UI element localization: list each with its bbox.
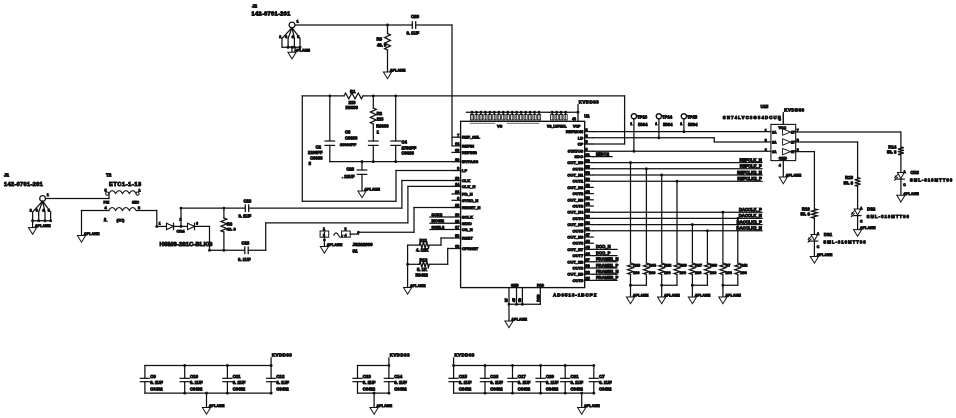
svg-text:REFINB: REFINB	[462, 150, 477, 155]
svg-text:C0402: C0402	[233, 387, 246, 392]
svg-text:39000PF: 39000PF	[340, 142, 357, 147]
svg-text:LD: LD	[578, 135, 583, 140]
svg-text:C29: C29	[411, 14, 420, 19]
svg-text:200: 200	[726, 271, 732, 275]
svg-text:APLANE: APLANE	[294, 49, 310, 53]
svg-text:0. 1UF: 0. 1UF	[518, 380, 531, 385]
svg-text:1: 1	[297, 20, 299, 24]
svg-text:APLANE: APLANE	[84, 232, 100, 236]
svg-text:200: 200	[633, 271, 639, 275]
svg-text:C0603: C0603	[402, 150, 415, 155]
svg-text:R32: R32	[664, 264, 671, 268]
svg-text:5: 5	[105, 189, 107, 193]
svg-text:CR3: CR3	[910, 170, 919, 175]
svg-text:5004: 5004	[663, 122, 673, 127]
svg-text:OUT_N9: OUT_N9	[567, 272, 584, 277]
svg-text:0. 1UF: 0. 1UF	[239, 213, 252, 218]
svg-text:HSMS-281C-BLKG: HSMS-281C-BLKG	[160, 242, 213, 248]
svg-text:C21: C21	[571, 374, 580, 379]
svg-text:R7: R7	[726, 264, 731, 268]
svg-text:113: 113	[377, 117, 384, 122]
svg-text:TP14: TP14	[662, 114, 673, 119]
svg-text:0. 1UF: 0. 1UF	[190, 380, 203, 385]
svg-text:0. 1UF: 0. 1UF	[150, 380, 163, 385]
svg-text:R0402: R0402	[416, 273, 429, 278]
svg-text:C11: C11	[233, 374, 241, 379]
svg-text:BYPASS: BYPASS	[462, 159, 478, 164]
svg-text:42: 42	[586, 184, 590, 188]
svg-text:SYNC_N: SYNC_N	[462, 198, 478, 203]
svg-text:17: 17	[455, 226, 459, 230]
svg-text:FRAME2_N: FRAME2_N	[596, 269, 619, 274]
svg-text:R0603: R0603	[346, 105, 359, 110]
svg-text:4: 4	[345, 234, 347, 238]
svg-text:R33: R33	[680, 264, 687, 268]
svg-text:2: 2	[180, 218, 182, 222]
svg-text:35: 35	[586, 208, 590, 212]
svg-text:53: 53	[586, 177, 590, 181]
svg-text:PD_N: PD_N	[462, 192, 473, 197]
svg-text:7: 7	[457, 133, 459, 137]
svg-text:FRAME1_P: FRAME1_P	[596, 263, 619, 268]
svg-text:C9: C9	[150, 374, 156, 379]
svg-text:T2: T2	[106, 173, 112, 178]
svg-text:0. 1UF: 0. 1UF	[394, 380, 407, 385]
svg-text:58: 58	[455, 234, 459, 238]
svg-text:C19: C19	[242, 241, 250, 246]
svg-text:OUT1: OUT1	[573, 179, 584, 184]
svg-text:R44: R44	[649, 264, 657, 268]
svg-text:KVDD33: KVDD33	[272, 353, 292, 358]
svg-text:2: 2	[323, 234, 325, 238]
svg-text:0. 1UF: 0. 1UF	[238, 257, 251, 262]
svg-text:C0402: C0402	[150, 387, 163, 392]
svg-text:4: 4	[42, 209, 44, 213]
svg-text:39: 39	[586, 196, 590, 200]
svg-text:DCO_N: DCO_N	[596, 244, 611, 249]
svg-text:2: 2	[104, 217, 106, 221]
svg-text:8: 8	[779, 118, 781, 122]
svg-text:FRAME2_P: FRAME2_P	[596, 275, 619, 280]
svg-text:R1: R1	[350, 89, 356, 94]
svg-text:142-0701-201: 142-0701-201	[252, 12, 291, 18]
svg-text:200: 200	[680, 271, 686, 275]
svg-text:R0603: R0603	[376, 123, 389, 128]
svg-text:OUT_N6: OUT_N6	[567, 235, 584, 240]
svg-text:5. 1K: 5. 1K	[417, 267, 427, 272]
svg-text:OUT3: OUT3	[573, 204, 584, 209]
svg-text:VS_LVPECL: VS_LVPECL	[547, 124, 567, 128]
svg-text:MISO2: MISO2	[596, 151, 610, 156]
svg-text:53. 6: 53. 6	[887, 150, 897, 155]
svg-text:APLANE: APLANE	[786, 174, 802, 178]
svg-text:200: 200	[649, 271, 655, 275]
svg-text:45: 45	[512, 298, 516, 302]
svg-text:53. 6: 53. 6	[844, 180, 854, 185]
svg-text:OUT5: OUT5	[573, 228, 584, 233]
svg-text:APLANE: APLANE	[327, 243, 343, 247]
svg-text:47: 47	[586, 233, 590, 237]
svg-text:C17: C17	[518, 374, 527, 379]
svg-text:J1: J1	[4, 173, 10, 178]
svg-text:C16: C16	[490, 374, 499, 379]
svg-text:APLANE: APLANE	[364, 188, 380, 192]
svg-text:SML-310MTT86: SML-310MTT86	[910, 178, 953, 183]
svg-text:56: 56	[586, 159, 590, 163]
svg-text:APLANE: APLANE	[695, 294, 711, 298]
svg-text:0. 1UF: 0. 1UF	[459, 380, 472, 385]
svg-text:J2: J2	[252, 4, 258, 9]
svg-text:OUT9: OUT9	[573, 278, 584, 283]
svg-text:DACCLK2_P: DACCLK2_P	[737, 219, 762, 224]
svg-text:33: 33	[586, 264, 590, 268]
svg-text:KVDD33: KVDD33	[579, 99, 599, 104]
svg-text:C0402: C0402	[490, 387, 503, 392]
svg-text:CR4: CR4	[177, 229, 186, 234]
svg-text:4. 12K: 4. 12K	[416, 248, 428, 253]
svg-text:1: 1	[680, 122, 682, 126]
svg-text:VS: VS	[497, 123, 503, 128]
svg-text:1: 1	[139, 189, 141, 193]
svg-text:63: 63	[455, 149, 459, 153]
svg-text:43: 43	[572, 117, 576, 121]
svg-text:CP: CP	[578, 142, 584, 147]
svg-text:APLANE: APLANE	[664, 294, 680, 298]
svg-text:0. 1UF: 0. 1UF	[276, 380, 289, 385]
svg-text:SCK2: SCK2	[432, 212, 443, 217]
svg-text:1: 1	[47, 193, 49, 197]
svg-text:200: 200	[664, 271, 670, 275]
svg-text:TP15: TP15	[687, 114, 698, 119]
svg-text:0. 1UF: 0. 1UF	[599, 380, 612, 385]
svg-text:APLANE: APLANE	[209, 404, 225, 408]
svg-text:46: 46	[586, 239, 590, 243]
svg-text:APLANE: APLANE	[584, 404, 600, 408]
svg-text:SEC: SEC	[132, 200, 140, 204]
svg-text:43: 43	[586, 190, 590, 194]
svg-text:KVDD33: KVDD33	[390, 353, 410, 358]
svg-text:3A: 3A	[772, 150, 777, 154]
svg-text:OUT0: OUT0	[573, 166, 584, 171]
svg-text:CS_N: CS_N	[462, 227, 473, 232]
svg-text:RSET: RSET	[462, 236, 473, 241]
svg-text:APLANE: APLANE	[35, 224, 51, 228]
svg-text:OUT4: OUT4	[573, 216, 584, 221]
svg-text:200: 200	[740, 271, 746, 275]
svg-text:APLANE: APLANE	[633, 294, 649, 298]
svg-text:DACCLK_N: DACCLK_N	[739, 213, 762, 218]
svg-text:C0402: C0402	[190, 387, 203, 392]
svg-text:3: 3	[586, 134, 588, 138]
svg-text:200: 200	[695, 271, 701, 275]
svg-text:DCO_P: DCO_P	[596, 250, 611, 255]
svg-text:0. 1UF: 0. 1UF	[233, 380, 246, 385]
svg-text:OUT8: OUT8	[573, 266, 584, 271]
svg-text:TP13: TP13	[637, 114, 648, 119]
svg-text:APLANE: APLANE	[390, 69, 406, 73]
svg-text:50: 50	[518, 298, 522, 302]
svg-text:OUT_N5: OUT_N5	[567, 222, 584, 227]
svg-text:45: 45	[586, 246, 590, 250]
svg-text:REFCLK_P: REFCLK_P	[740, 164, 762, 169]
svg-text:SSEL2: SSEL2	[432, 224, 445, 229]
svg-text:(4C): (4C)	[117, 218, 125, 223]
svg-text:APLANE: APLANE	[903, 192, 919, 196]
svg-text:APLANE: APLANE	[511, 318, 527, 322]
svg-text:0. 1UF: 0. 1UF	[490, 380, 503, 385]
svg-text:C0402: C0402	[599, 387, 612, 392]
svg-text:REFIN: REFIN	[462, 143, 474, 148]
svg-text:9: 9	[457, 167, 459, 171]
svg-text:OUT_N8: OUT_N8	[567, 259, 584, 264]
svg-text:26: 26	[586, 270, 590, 274]
svg-text:OUT6: OUT6	[573, 241, 584, 246]
svg-text:REF_SEL: REF_SEL	[462, 135, 481, 140]
svg-text:RESET_N: RESET_N	[462, 205, 481, 210]
svg-text:0. 1UF: 0. 1UF	[363, 380, 376, 385]
svg-text:2: 2	[586, 128, 588, 132]
svg-text:REFCLK2_N: REFCLK2_N	[737, 170, 762, 175]
svg-text:MOSI2: MOSI2	[432, 218, 445, 223]
svg-text:4: 4	[779, 164, 781, 168]
svg-text:OUT_N0: OUT_N0	[567, 160, 584, 165]
svg-text:C0402: C0402	[546, 387, 559, 392]
svg-text:OUT2: OUT2	[573, 191, 584, 196]
svg-text:SN74LVC3G34DCUR: SN74LVC3G34DCUR	[723, 115, 782, 120]
svg-text:2A: 2A	[772, 140, 777, 144]
svg-text:SML-310MTT86: SML-310MTT86	[867, 214, 910, 219]
svg-text:OUT_N7: OUT_N7	[567, 247, 584, 252]
svg-text:C2: C2	[316, 145, 322, 150]
svg-text:1: 1	[323, 227, 325, 231]
svg-text:55: 55	[586, 165, 590, 169]
svg-text:R27: R27	[695, 264, 702, 268]
svg-text:C12: C12	[276, 374, 285, 379]
svg-text:DS1: DS1	[824, 232, 833, 237]
svg-text:SDIO: SDIO	[462, 221, 472, 226]
svg-text:JS102000: JS102000	[353, 242, 374, 247]
svg-text:C7: C7	[599, 374, 605, 379]
svg-text:CPRSET: CPRSET	[462, 246, 479, 251]
svg-text:3: 3	[196, 222, 198, 226]
svg-text:C26: C26	[346, 166, 354, 171]
svg-text:R42: R42	[740, 264, 747, 268]
svg-text:22: 22	[455, 220, 459, 224]
svg-text:PAD: PAD	[536, 294, 540, 302]
svg-text:LF: LF	[462, 168, 467, 173]
svg-text:C0603: C0603	[345, 135, 358, 140]
svg-text:3: 3	[345, 227, 347, 231]
svg-text:142-0701-201: 142-0701-201	[4, 182, 43, 188]
svg-text:0. 1UF: 0. 1UF	[546, 380, 559, 385]
svg-text:1: 1	[159, 222, 161, 226]
svg-text:3: 3	[285, 35, 287, 39]
svg-text:C0402: C0402	[518, 387, 531, 392]
svg-text:C20: C20	[546, 374, 555, 379]
svg-text:U1: U1	[584, 113, 590, 118]
svg-text:DS2: DS2	[867, 207, 876, 212]
svg-text:57: 57	[505, 298, 509, 302]
svg-text:27: 27	[586, 258, 590, 262]
svg-text:25: 25	[586, 277, 590, 281]
svg-text:VCP: VCP	[573, 124, 581, 128]
svg-text:49. 9: 49. 9	[377, 43, 387, 48]
svg-text:CLK_N: CLK_N	[462, 184, 475, 189]
svg-text:AD9518-1BCPZ: AD9518-1BCPZ	[553, 292, 597, 297]
svg-text:C4: C4	[402, 139, 408, 144]
svg-text:REFCLK_N: REFCLK_N	[739, 157, 761, 162]
svg-text:R9: R9	[377, 36, 383, 41]
svg-text:KVDD33: KVDD33	[454, 353, 474, 358]
svg-text:C0402: C0402	[571, 387, 584, 392]
svg-text:OUT_N4: OUT_N4	[567, 210, 584, 215]
svg-text:36: 36	[586, 215, 590, 219]
svg-text:R12: R12	[420, 257, 428, 262]
svg-text:0. 1UF: 0. 1UF	[571, 380, 584, 385]
svg-text:APLANE: APLANE	[410, 284, 426, 288]
svg-text:R2: R2	[377, 111, 383, 116]
svg-text:C0402: C0402	[394, 387, 407, 392]
svg-text:OUT7: OUT7	[573, 253, 584, 258]
svg-text:U15: U15	[761, 104, 769, 109]
svg-text:C0402: C0402	[363, 387, 376, 392]
svg-text:40: 40	[586, 202, 590, 206]
svg-text:62: 62	[455, 245, 459, 249]
svg-text:10: 10	[455, 158, 459, 162]
svg-text:C0402: C0402	[459, 387, 472, 392]
svg-text:APLANE: APLANE	[860, 226, 876, 230]
svg-text:APLANE: APLANE	[817, 253, 833, 257]
svg-text:8: 8	[457, 197, 459, 201]
svg-text:32: 32	[586, 221, 590, 225]
svg-text:STATUS: STATUS	[568, 149, 584, 154]
svg-text:5: 5	[48, 209, 50, 213]
svg-text:200: 200	[710, 271, 716, 275]
svg-text:R11: R11	[420, 238, 428, 243]
svg-text:6: 6	[586, 147, 588, 151]
svg-text:5004: 5004	[688, 122, 698, 127]
svg-text:19: 19	[455, 213, 459, 217]
svg-text:1200PF: 1200PF	[308, 150, 323, 155]
svg-text:C18: C18	[244, 198, 252, 203]
svg-text:52: 52	[586, 171, 590, 175]
svg-text:PRI: PRI	[104, 200, 110, 204]
svg-text:C0402: C0402	[276, 387, 289, 392]
svg-text:OUT_N2: OUT_N2	[567, 185, 584, 190]
svg-text:3: 3	[36, 209, 38, 213]
svg-text:CLK: CLK	[462, 178, 470, 183]
svg-text:REFCLK2_P: REFCLK2_P	[737, 176, 762, 181]
svg-text:APLANE: APLANE	[725, 294, 741, 298]
svg-text:GND: GND	[779, 157, 787, 161]
svg-text:APLANE: APLANE	[376, 404, 392, 408]
svg-text:C3: C3	[345, 129, 351, 134]
svg-text:3: 3	[138, 206, 140, 210]
svg-text:2: 2	[30, 209, 32, 213]
svg-text:R23: R23	[633, 264, 640, 268]
svg-text:5: 5	[586, 140, 588, 144]
svg-text:SDO: SDO	[575, 154, 584, 159]
svg-text:ETC1-1-13: ETC1-1-13	[109, 182, 142, 188]
svg-text:R39: R39	[710, 264, 717, 268]
svg-text:KVDD33: KVDD33	[784, 108, 804, 113]
svg-text:FRAME1_N: FRAME1_N	[596, 257, 619, 262]
svg-text:GND: GND	[511, 283, 519, 287]
svg-text:1: 1	[630, 122, 632, 126]
svg-text:PAD: PAD	[537, 283, 544, 287]
svg-text:5004: 5004	[638, 122, 648, 127]
svg-text:0. 1UF: 0. 1UF	[407, 31, 420, 36]
svg-text:5: 5	[297, 35, 299, 39]
svg-text:OUT_N1: OUT_N1	[567, 173, 584, 178]
svg-text:1: 1	[655, 122, 657, 126]
svg-text:SML-310MTT86: SML-310MTT86	[823, 240, 866, 245]
svg-text:C13: C13	[363, 374, 372, 379]
svg-text:49. 9: 49. 9	[227, 227, 237, 232]
svg-text:C14: C14	[394, 374, 403, 379]
svg-text:2: 2	[279, 35, 281, 39]
svg-text:31: 31	[586, 227, 590, 231]
svg-text:REFMON: REFMON	[566, 129, 583, 134]
svg-text:21: 21	[586, 153, 590, 157]
svg-text:C0603: C0603	[310, 155, 323, 160]
svg-text:DACCLK_P: DACCLK_P	[739, 207, 762, 212]
svg-text:C10: C10	[190, 374, 199, 379]
svg-text:53. 6: 53. 6	[800, 212, 810, 217]
svg-text:S1: S1	[353, 248, 359, 253]
svg-text:. 22UF: . 22UF	[342, 174, 355, 179]
svg-text:OUT_N3: OUT_N3	[567, 197, 584, 202]
svg-text:C15: C15	[459, 374, 468, 379]
svg-text:4: 4	[292, 35, 294, 39]
svg-text:1A: 1A	[772, 130, 777, 134]
svg-text:SCLK: SCLK	[462, 215, 473, 220]
svg-text:DACCLK2_N: DACCLK2_N	[736, 226, 761, 231]
